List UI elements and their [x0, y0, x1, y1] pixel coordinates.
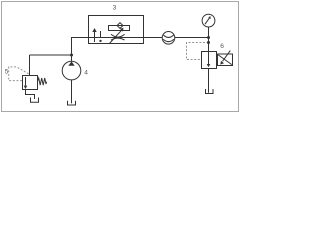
svg-text:3: 3: [113, 5, 117, 12]
svg-text:5: 5: [5, 69, 9, 76]
svg-text:4: 4: [84, 70, 88, 77]
svg-text:6: 6: [220, 43, 224, 50]
